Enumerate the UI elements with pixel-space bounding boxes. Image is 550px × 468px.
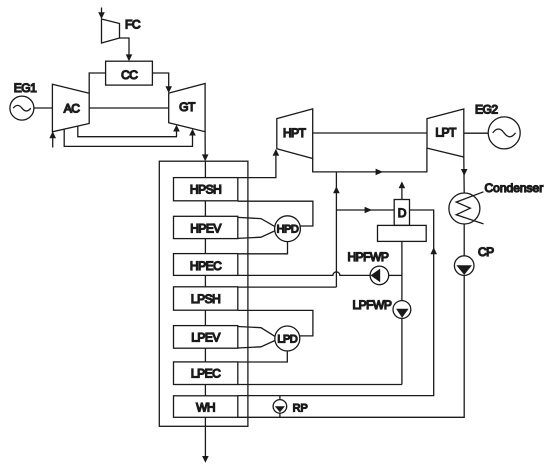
svg-text:CC: CC bbox=[121, 68, 138, 82]
svg-text:HPD: HPD bbox=[277, 224, 299, 236]
svg-text:HPT: HPT bbox=[283, 126, 307, 140]
svg-text:FC: FC bbox=[125, 18, 141, 32]
svg-text:LPSH: LPSH bbox=[191, 292, 220, 306]
svg-text:LPEC: LPEC bbox=[191, 367, 221, 381]
svg-text:LPT: LPT bbox=[435, 126, 457, 140]
svg-text:WH: WH bbox=[196, 401, 215, 415]
svg-text:GT: GT bbox=[179, 100, 196, 114]
svg-text:EG2: EG2 bbox=[475, 102, 498, 116]
svg-text:EG1: EG1 bbox=[14, 81, 37, 95]
svg-text:Condenser: Condenser bbox=[485, 181, 544, 195]
svg-text:HPSH: HPSH bbox=[190, 183, 221, 197]
svg-text:RP: RP bbox=[293, 402, 308, 414]
svg-text:LPD: LPD bbox=[277, 334, 297, 346]
svg-text:HPEV: HPEV bbox=[190, 222, 221, 236]
svg-text:LPFWP: LPFWP bbox=[353, 298, 392, 312]
svg-text:D: D bbox=[398, 206, 407, 220]
svg-text:HPEC: HPEC bbox=[190, 259, 222, 273]
svg-text:CP: CP bbox=[478, 245, 494, 259]
svg-text:AC: AC bbox=[64, 101, 81, 115]
svg-text:LPEV: LPEV bbox=[191, 330, 220, 344]
svg-text:HPFWP: HPFWP bbox=[348, 250, 389, 264]
